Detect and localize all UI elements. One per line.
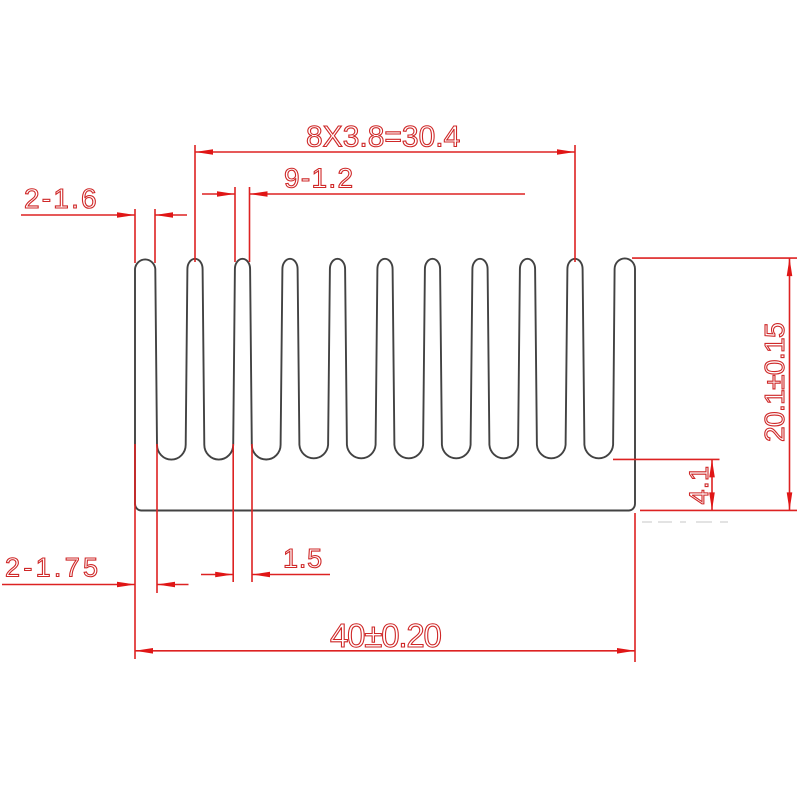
- dimension 9-1.2 extension lines: [235, 187, 250, 262]
- faint watermark dashes: [642, 521, 728, 523]
- dimension 20.1±0.15 line: [787, 258, 793, 510]
- dimension 2-1.6 line: [21, 212, 187, 218]
- svg-text:20.1±0.15: 20.1±0.15: [759, 323, 790, 442]
- dimension 2-1.6 extension lines: [135, 209, 155, 263]
- dimension 20.1±0.15 extension line top: [632, 257, 797, 259]
- svg-text:2-1.75: 2-1.75: [5, 553, 101, 583]
- svg-text:1.5: 1.5: [283, 544, 323, 574]
- dimension 1.5 extension lines: [233, 444, 252, 582]
- svg-text:40±0.20: 40±0.20: [330, 617, 441, 654]
- dimension 1.5 line: [201, 572, 330, 578]
- svg-text:4.1: 4.1: [684, 465, 714, 504]
- dimension 2-1.75 extension lines: [135, 444, 157, 659]
- dimension 8X3.8=30.4 extension lines: [195, 145, 575, 262]
- dimension 40±0.20 line: [135, 648, 635, 654]
- svg-text:8X3.8=30.4: 8X3.8=30.4: [306, 121, 460, 154]
- svg-text:9-1.2: 9-1.2: [284, 163, 354, 194]
- dimension 4.1 line: [709, 459, 715, 510]
- dimension 4.1 extension lines: [613, 459, 797, 510]
- dimension 2-1.75 line: [2, 582, 189, 588]
- svg-text:2-1.6: 2-1.6: [24, 183, 99, 214]
- dimension 9-1.2 line: [202, 191, 525, 197]
- heatsink profile outline: [135, 258, 635, 510]
- dimension 40±0.20 extension line right: [634, 513, 636, 662]
- dimension 8X3.8=30.4 line: [195, 149, 575, 155]
